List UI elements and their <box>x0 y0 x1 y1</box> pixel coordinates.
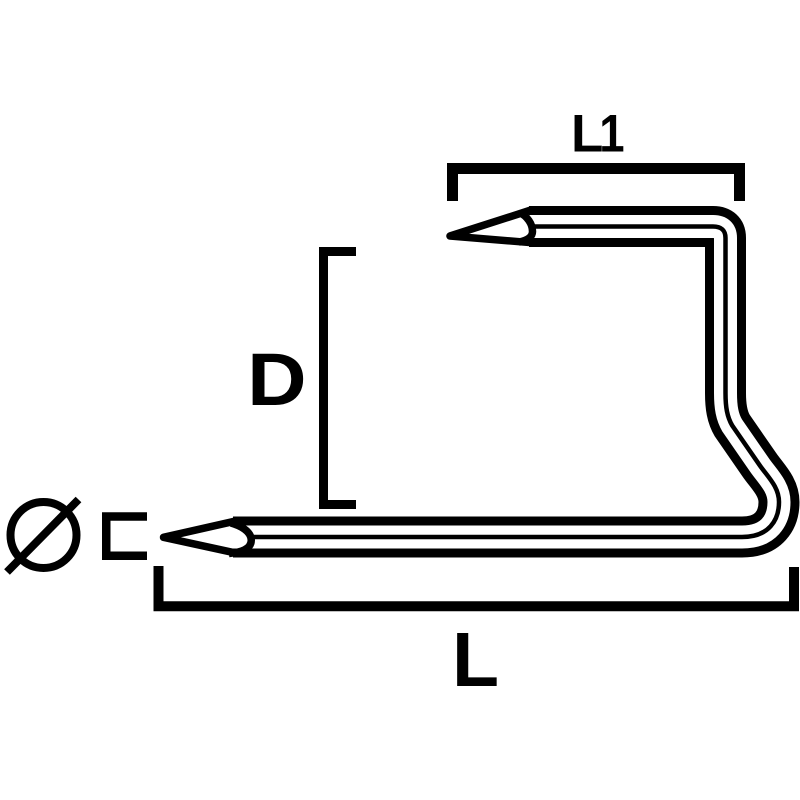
svg-text:D: D <box>247 338 306 421</box>
svg-text:1: 1 <box>599 104 624 163</box>
svg-text:L: L <box>452 617 499 703</box>
